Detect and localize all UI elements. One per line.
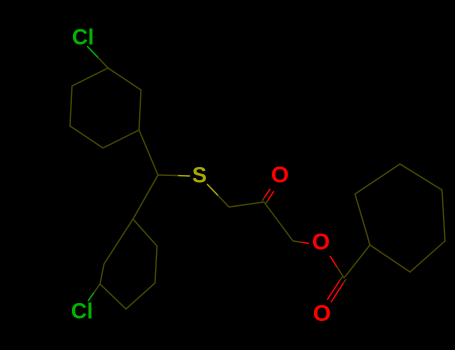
bond C3 to ester O2 (carbon half) [293, 241, 301, 242]
ketone double bond C2=O1 line b (oxygen half) [265, 189, 271, 197]
bond C3 to ester O2 (oxygen half) [301, 242, 309, 243]
bond C2 to C3 [264, 202, 293, 241]
ester double bond C4=O3 line b (carbon half) [340, 277, 343, 281]
bond O2 to C4 (oxygen half) [330, 256, 337, 267]
ester double bond C4=O3 line a (oxygen half) [331, 283, 343, 302]
bond C4 to cyclohexane C5 [344, 245, 370, 278]
svg-text:O: O [271, 162, 289, 188]
bond CH to S (carbon half) [158, 174, 178, 177]
svg-text:Cl: Cl [72, 25, 94, 50]
ester double bond C4=O3 line a (carbon half) [343, 279, 346, 283]
ketone double bond C2=O1 line b (carbon half) [262, 197, 264, 201]
svg-text:Cl: Cl [71, 299, 93, 324]
ester double bond C4=O3 line b (oxygen half) [327, 281, 339, 300]
chlorine substituent bond Cl1 (green half) [87, 46, 98, 58]
bond S to C1 (sulfur half) [207, 184, 218, 196]
bond ring1 to methine CH [139, 130, 158, 175]
bond C1 to C2 [229, 202, 264, 207]
svg-text:S: S [192, 163, 207, 188]
ketone double bond C2=O1 line a (oxygen half) [268, 191, 274, 199]
svg-text:O: O [312, 229, 330, 255]
svg-text:O: O [313, 300, 331, 326]
bond CH to S (sulfur half) [178, 175, 190, 177]
chlorine substituent bond Cl1 (carbon half) [98, 58, 108, 69]
chlorine substituent bond Cl2 (green half) [88, 293, 94, 302]
benzene ring 2 (bottom-left chlorophenyl) [100, 219, 157, 309]
cyclohexane ring (right) [355, 164, 445, 272]
ketone double bond C2=O1 line a (carbon half) [266, 200, 268, 204]
bond S to C1 (carbon half) [218, 196, 229, 208]
bond CH to ring2 [133, 175, 158, 219]
bond O2 to C4 (carbon half) [337, 267, 344, 278]
chlorine substituent bond Cl2 (carbon half) [94, 284, 100, 293]
benzene ring 1 (top-left chlorophenyl) [70, 68, 141, 148]
